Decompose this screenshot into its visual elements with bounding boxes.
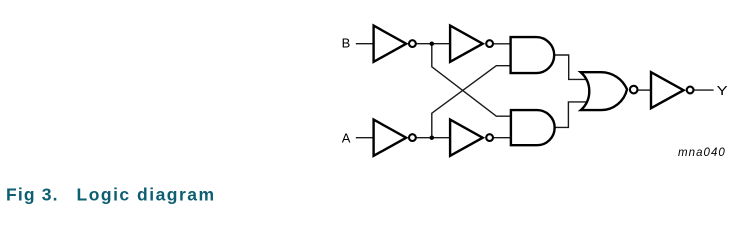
inverter U2 bubble [486, 40, 493, 47]
wire U8 output to Y [694, 89, 714, 91]
inverter U1 bubble [409, 40, 416, 47]
wire U1 output to node B1 [415, 43, 432, 45]
wire U5 output to U7 input [554, 55, 588, 79]
OR gate U7 [581, 72, 627, 110]
OR gate U7 bubble [630, 86, 638, 94]
AND gate U5 [511, 37, 555, 73]
wire U7 output to U8 input [638, 89, 652, 91]
wire B input [356, 43, 375, 45]
inverter U4 triangle [450, 120, 483, 156]
inverter U1 triangle [374, 26, 407, 62]
wire node A1 to U4 input [432, 137, 452, 139]
inverter U4 bubble [486, 134, 493, 141]
wire node A1 cross to U5 input [432, 66, 512, 138]
wire A input [356, 137, 375, 139]
inverter U8 triangle [651, 72, 684, 108]
svg-text:Y: Y [717, 83, 728, 98]
junction node A1 [430, 135, 435, 140]
svg-text:mna040: mna040 [678, 147, 726, 159]
wire U6 output to U7 input [555, 102, 588, 128]
wire U2 output to U5 input [493, 43, 512, 45]
wire U4 output to U6 input [493, 137, 512, 139]
wire node B1 to U2 input [432, 43, 452, 45]
inverter U8 bubble [687, 87, 694, 94]
inverter U3 triangle [374, 120, 407, 156]
wire node B1 cross to U6 input [432, 44, 512, 117]
svg-text:B: B [342, 35, 351, 50]
svg-text:Logic diagram: Logic diagram [77, 185, 216, 205]
wire U3 output to node A1 [415, 137, 432, 139]
AND gate U6 [511, 110, 555, 145]
junction node B1 [430, 41, 435, 46]
svg-text:A: A [342, 131, 351, 146]
svg-text:Fig 3.: Fig 3. [6, 185, 59, 205]
inverter U2 triangle [450, 26, 483, 62]
inverter U3 bubble [409, 134, 416, 141]
